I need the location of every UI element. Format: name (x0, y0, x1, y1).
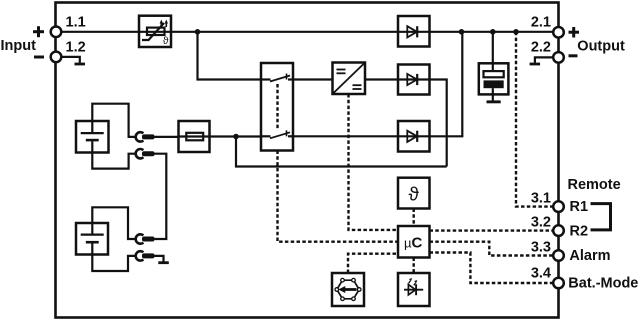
wire plug1 to fuse (154, 136, 179, 138)
terminal 3.3 (553, 250, 564, 261)
dashed control trimmer to uC (348, 254, 398, 273)
plus sign input (33, 26, 44, 37)
minus sign output (569, 54, 578, 57)
protection block F1 (139, 16, 171, 47)
terminal 2.1 (553, 27, 564, 38)
capacitor C1 (479, 63, 509, 103)
svg-text:R1: R1 (570, 199, 589, 215)
dashed uC to terminal 3.2 (430, 229, 554, 231)
junction node fuse output (233, 134, 239, 140)
LED indicator (398, 273, 430, 306)
wire battery1 top loop (92, 104, 136, 137)
svg-text:ϑ: ϑ (409, 185, 420, 206)
dashed theta sensor to uC (413, 209, 415, 227)
terminal 1.2 (51, 52, 62, 63)
battery connector 3 (136, 234, 155, 243)
wire capacitor branch (492, 32, 494, 71)
diode D2 (398, 65, 430, 95)
svg-text:Output: Output (577, 39, 625, 55)
terminal 2.2 (553, 52, 564, 63)
terminal 1.1 (51, 27, 62, 38)
terminal 3.4 (553, 278, 564, 289)
dashed uC to terminal 3.4 (430, 253, 554, 284)
battery B2 (76, 223, 108, 255)
svg-text:C: C (412, 235, 423, 252)
wire DC/DC to diode D2 (365, 78, 398, 80)
wire D3 output up to rail (430, 32, 463, 137)
svg-text:Remote: Remote (568, 177, 621, 193)
svg-text:3.4: 3.4 (531, 265, 551, 281)
trimmer adjustment block (332, 273, 364, 306)
plus sign output (569, 27, 580, 38)
svg-text:1.1: 1.1 (66, 15, 86, 31)
temperature sensor theta block (398, 178, 430, 209)
wire series link plug2 to plug3 (154, 154, 167, 239)
svg-text:ϑ: ϑ (163, 35, 169, 47)
junction node A (195, 29, 201, 35)
chassis at 2.2 (530, 57, 554, 65)
dashed uC to LED (413, 258, 415, 274)
wire output rail D1 to 2.1 (430, 31, 554, 33)
junction node rail D3 (459, 29, 465, 35)
DC/DC converter U1 (333, 63, 366, 95)
battery connector 2 (136, 149, 155, 158)
svg-text:Bat.-Mode: Bat.-Mode (568, 276, 638, 292)
module outline (56, 3, 559, 318)
terminal 3.1 (553, 201, 564, 212)
junction node rail remote (513, 29, 519, 35)
battery connector 1 (136, 132, 155, 141)
wire top rail protection to diode D1 (171, 31, 398, 33)
chassis at 1.2 (61, 57, 85, 66)
wire 1.1 to protection block (61, 31, 139, 33)
svg-text:3.2: 3.2 (531, 215, 551, 231)
svg-text:3.3: 3.3 (531, 240, 551, 256)
dashed control switch to uC (276, 84, 278, 130)
dashed control DC/DC to uC (349, 94, 399, 230)
wire switch to DC/DC (293, 78, 333, 80)
wire battery1 bottom loop (92, 153, 136, 169)
wire switch to diode D3 (293, 135, 398, 137)
minus sign input (34, 56, 44, 59)
microcontroller uC (398, 226, 430, 258)
battery B1 (76, 121, 109, 153)
dashed uC to terminal 3.3 (430, 242, 554, 256)
diode D1 (398, 16, 430, 47)
svg-text:2.2: 2.2 (531, 40, 551, 56)
battery connector 4 (136, 251, 155, 260)
svg-text:Alarm: Alarm (569, 248, 610, 264)
wire junction A down to switch top (198, 32, 262, 80)
diode D3 (398, 121, 430, 152)
junction node rail capacitor (490, 29, 496, 35)
wire bypass from fuse node (236, 137, 447, 167)
wire battery2 bottom loop (92, 255, 136, 272)
svg-text:1.2: 1.2 (66, 40, 86, 56)
chassis bar battery2 (158, 261, 169, 264)
svg-text:3.1: 3.1 (531, 191, 551, 207)
dashed remote rail to terminal 3.1 (516, 32, 554, 207)
wire plug4 to chassis (154, 256, 164, 262)
svg-text:2.1: 2.1 (531, 15, 551, 31)
wire D2 output down (430, 80, 447, 167)
bracket R1 R2 (591, 204, 611, 230)
wire fuse to switch (210, 135, 262, 137)
fuse F2 (179, 121, 210, 152)
terminal 3.2 (553, 225, 564, 236)
wire battery2 top loop (92, 207, 136, 239)
svg-text:Input: Input (1, 38, 37, 54)
switch S1 (261, 63, 293, 151)
svg-text:R2: R2 (570, 223, 589, 239)
